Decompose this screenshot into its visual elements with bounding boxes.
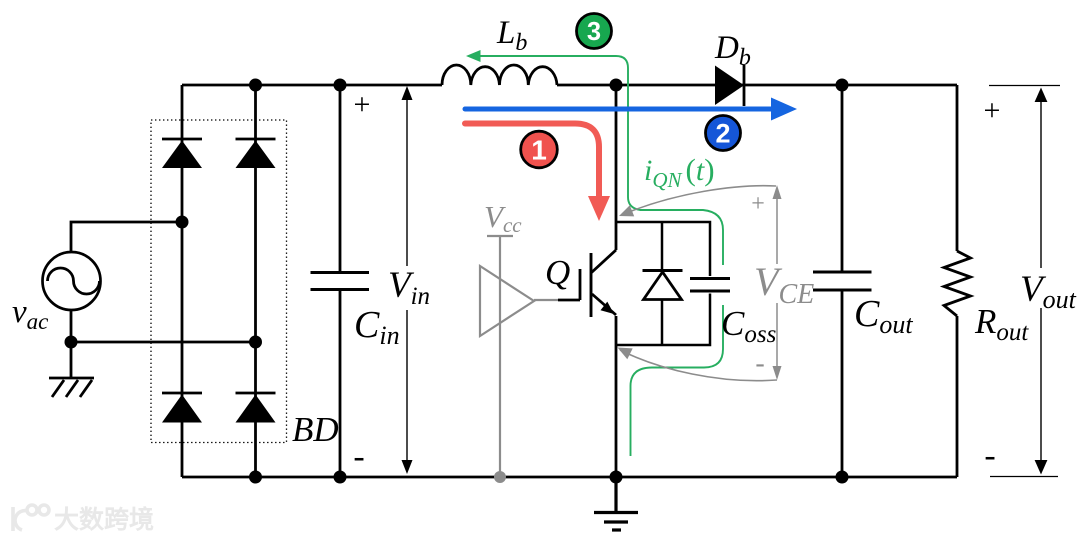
red current path 1 arrow [465, 124, 610, 222]
inductor L_b [442, 65, 557, 85]
bridge diode D1 (top left) [162, 139, 202, 168]
wire C_in column [339, 85, 342, 477]
wire top rail [182, 84, 957, 87]
badge circle 2 [706, 116, 741, 151]
bridge diode D4 (bottom right) [236, 393, 276, 423]
bridge rectifier dashed box BD [151, 120, 287, 443]
body diode triangle [644, 272, 682, 300]
node dot (AC bottom / bridge right) [249, 336, 262, 349]
body diode cathode bar [643, 269, 683, 272]
node dot (bottom rail / C_out) [836, 471, 849, 484]
node dot (bottom rail / bridge right) [249, 471, 262, 484]
svg-text:-: - [353, 438, 364, 475]
svg-text:+: + [354, 88, 371, 121]
badge circle 3 [577, 14, 612, 49]
svg-text:-: - [755, 348, 764, 379]
diode D_b [715, 65, 744, 106]
gate lead black [558, 299, 580, 302]
capacitor C_oss plates [690, 279, 730, 292]
IGBT Q collector diagonal [592, 250, 617, 273]
V_in measurement arrow [402, 86, 413, 474]
bridge diode D2 (top right) [236, 139, 276, 168]
AC source v_ac [43, 252, 101, 310]
gray arrowhead (collector pointer) [619, 205, 634, 216]
label V_in [384, 265, 430, 310]
wire emitter column [615, 316, 618, 477]
svg-text:BD: BD [292, 410, 339, 449]
resistor R_out zigzag [944, 251, 971, 316]
watermark logo [13, 505, 49, 531]
IGBT Q emitter arrowhead [601, 302, 615, 314]
body diode lead bottom [661, 300, 664, 345]
label V_out [1016, 268, 1077, 314]
badge circle 1 [521, 131, 558, 168]
wire bridge left column [181, 85, 184, 477]
green current loop path 3 / i_QN [470, 56, 723, 456]
capacitor C_out [813, 272, 872, 290]
wire bottom rail [182, 476, 957, 479]
white mask under C_oss plates [713, 265, 733, 305]
svg-text:-: - [984, 437, 995, 474]
wire AC source top lead [71, 222, 182, 253]
svg-text:+: + [751, 191, 765, 217]
body diode (hollow) lead top [661, 222, 664, 270]
blue current path 2 arrow [465, 98, 797, 121]
svg-text:Q: Q [545, 253, 570, 292]
svg-text:1: 1 [531, 135, 547, 166]
svg-text:2: 2 [715, 119, 730, 149]
gate lead gray [534, 299, 558, 301]
green arrowhead (path 3) [466, 50, 481, 62]
bridge diode D3 (bottom left) [162, 393, 202, 423]
svg-text:大数跨境: 大数跨境 [54, 505, 154, 534]
node dot (bottom rail / driver gray) [494, 471, 506, 483]
gray arrowhead (emitter pointer) [618, 348, 633, 360]
node dot (top rail / switch) [610, 79, 623, 92]
node dot (bottom rail / emitter) [610, 471, 623, 484]
capacitor C_in [311, 273, 370, 290]
wire switch node column (collector) [615, 85, 618, 250]
IGBT Q gate bar [579, 269, 582, 300]
IGBT Q channel bar [590, 253, 593, 317]
gate driver triangle [480, 266, 534, 336]
node dot (top rail / C_out) [836, 79, 849, 92]
wire bridge right column [254, 85, 257, 477]
node dot (top rail / C_in) [334, 79, 347, 92]
wire AC source bottom lead [71, 310, 256, 379]
node dot (bottom rail / C_in) [334, 471, 347, 484]
wire R_out column [956, 85, 959, 477]
node dot (AC bottom) [65, 336, 78, 349]
svg-text:+: + [984, 94, 1001, 127]
V_CE measurement line [773, 185, 782, 380]
snubber box outline [616, 222, 710, 345]
ground (AC source) [49, 378, 94, 397]
node dot (AC top / bridge) [176, 216, 189, 229]
node dot (top rail / bridge right) [249, 79, 262, 92]
ground (emitter) [594, 477, 638, 530]
V_out measurement arrow [989, 86, 1060, 477]
wire C_out column [841, 85, 844, 477]
gate driver supply wire (gray) [499, 236, 501, 477]
gray pointer curve to emitter [620, 350, 777, 381]
svg-text:3: 3 [587, 18, 601, 46]
gray pointer curve to collector [624, 186, 776, 214]
gate driver V_cc T-bar [487, 235, 513, 237]
IGBT Q emitter diagonal [592, 294, 616, 315]
